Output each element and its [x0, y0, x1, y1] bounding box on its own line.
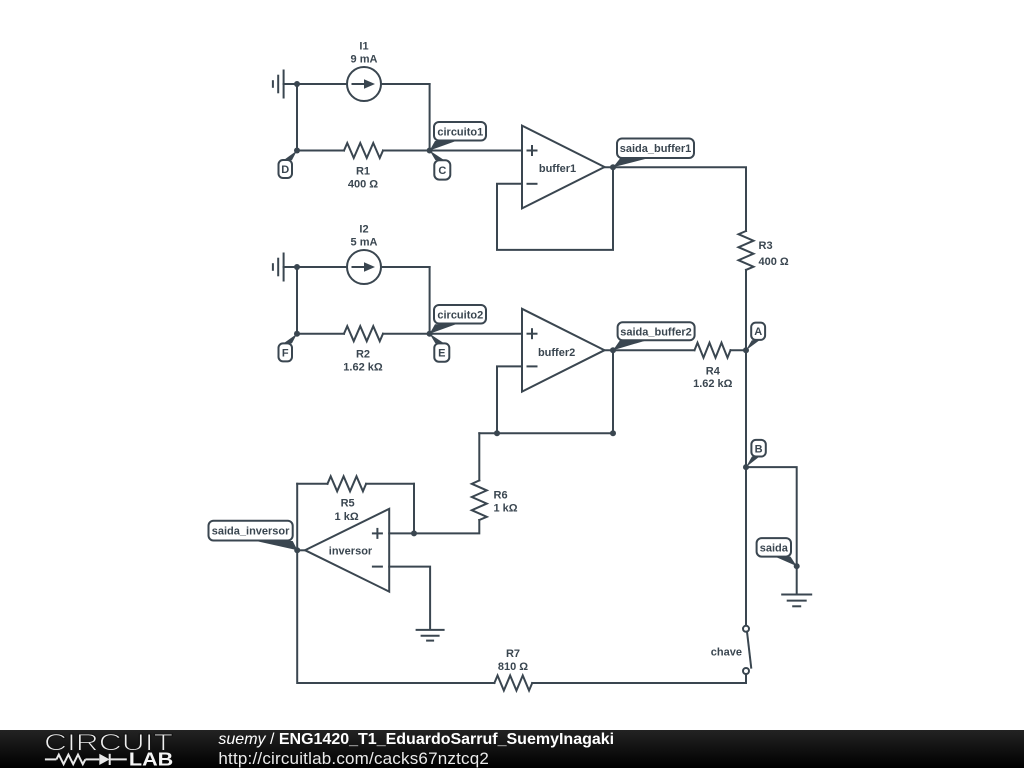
- junction R5/plus-wire: [411, 530, 417, 536]
- op-amp U3 inversor triangle (points left): [305, 509, 389, 592]
- node saida_inversor junction: [294, 547, 300, 553]
- wire ground2 to I2 left terminal: [284, 266, 347, 268]
- op-amp buffer2 plus pin mark: [527, 328, 538, 339]
- wire inversor - input to ground3: [389, 567, 430, 629]
- svg-text:inversor: inversor: [329, 545, 373, 557]
- junction ground2/I2/F: [294, 264, 300, 270]
- flag circuito1: [430, 122, 486, 151]
- resistor R2 leads and zigzag: [297, 333, 344, 335]
- wire buffer2 feedback loop: [497, 350, 613, 433]
- node tag E: [430, 334, 450, 362]
- svg-text:R2: R2: [356, 349, 370, 361]
- svg-text:D: D: [281, 164, 289, 176]
- svg-text:circuito1: circuito1: [437, 127, 483, 139]
- svg-text:400 Ω: 400 Ω: [759, 256, 789, 268]
- node B junction: [743, 464, 749, 470]
- svg-text:C: C: [438, 165, 446, 177]
- svg-text:buffer1: buffer1: [539, 163, 576, 175]
- wire ground1 to I1 left terminal: [284, 83, 347, 85]
- node tag F: [279, 334, 298, 362]
- svg-text:1.62 kΩ: 1.62 kΩ: [343, 362, 383, 374]
- node F junction: [294, 331, 300, 337]
- wire node B down to switch: [745, 467, 747, 626]
- svg-text:9 mA: 9 mA: [351, 54, 378, 66]
- wire ground junction down to node D: [296, 84, 298, 151]
- current source I2: [347, 250, 381, 284]
- svg-text:5 mA: 5 mA: [351, 237, 378, 249]
- wire node C to buffer1 + input: [430, 150, 522, 152]
- junction feedback2/R6: [494, 430, 500, 436]
- wire I1 right terminal to corner: [381, 83, 430, 85]
- flag saida_buffer2: [613, 322, 695, 350]
- svg-text:LAB: LAB: [129, 750, 173, 768]
- resistor R1 leads and zigzag: [297, 150, 344, 152]
- svg-text:circuito2: circuito2: [437, 310, 483, 322]
- component value labels: [329, 41, 742, 673]
- flag circuito2: [430, 305, 486, 334]
- wire buffer1 output to R3 top corner: [605, 167, 747, 231]
- svg-text:E: E: [438, 348, 445, 360]
- svg-text:1 kΩ: 1 kΩ: [494, 503, 518, 515]
- svg-text:buffer2: buffer2: [538, 347, 575, 359]
- net flags and node name tags: [209, 122, 797, 566]
- wire switch bottom to corner then left to R7: [532, 674, 746, 683]
- node D junction: [294, 148, 300, 154]
- ground GND2 (circuit 2, rotated left): [273, 254, 284, 281]
- resistor R6 zigzag: [472, 480, 487, 520]
- wire R4 to node A: [731, 349, 747, 351]
- wire corner down to node C: [429, 84, 431, 151]
- svg-text:saida_inversor: saida_inversor: [212, 526, 290, 538]
- ground GND1 (circuit 1, rotated left): [273, 71, 284, 98]
- wire inversor output stub: [297, 549, 305, 551]
- wire buffer1 feedback loop: [497, 167, 613, 250]
- node E junction: [427, 331, 433, 337]
- junction ground1/I1/D: [294, 81, 300, 87]
- current source I1: [347, 67, 381, 101]
- svg-text:saida_buffer2: saida_buffer2: [620, 326, 692, 338]
- junction feedback2 corner: [610, 430, 616, 436]
- node tag A: [746, 323, 765, 351]
- svg-text:R1: R1: [356, 166, 370, 178]
- op-amp U1 buffer1 triangle: [522, 126, 605, 209]
- op-amp inversor plus pin mark: [372, 528, 383, 539]
- switch SW1 chave: [743, 626, 751, 674]
- op-amp buffer2 minus pin mark: [527, 365, 538, 367]
- wire inversor + input to R6 bottom: [389, 520, 479, 533]
- svg-text:1 kΩ: 1 kΩ: [335, 511, 359, 523]
- resistor R7 zigzag: [494, 676, 532, 691]
- wire R7 to bottom-left corner then up to inversor output node: [297, 550, 494, 683]
- CircuitLab logo resistor-diode glyph: [45, 754, 127, 765]
- wire R6 top to feedback line: [478, 433, 480, 480]
- node tag D: [279, 151, 298, 179]
- resistor R4 zigzag: [695, 343, 731, 358]
- wire R6 corner to feedback junction: [479, 432, 497, 434]
- node saida_buffer2 junction: [610, 347, 616, 353]
- svg-text:R4: R4: [706, 365, 721, 377]
- node tag C: [430, 151, 451, 180]
- ground GND4 (below saida): [782, 595, 811, 607]
- svg-text:saida_buffer1: saida_buffer1: [620, 143, 692, 155]
- svg-text:A: A: [754, 326, 762, 338]
- wire corner down to node E: [429, 267, 431, 334]
- wire node A down to node B: [745, 350, 747, 467]
- svg-text:1.62 kΩ: 1.62 kΩ: [693, 378, 733, 390]
- wire buffer2 output to R4: [605, 349, 695, 351]
- wire I2 right terminal to corner: [381, 266, 430, 268]
- svg-text:saida: saida: [760, 543, 789, 555]
- flag saida: [757, 538, 797, 566]
- flag saida_buffer1: [613, 139, 694, 168]
- wire ground2 junction down to node F: [296, 267, 298, 334]
- node saida_buffer1 junction: [610, 164, 616, 170]
- op-amp buffer1 minus pin mark: [527, 183, 538, 185]
- resistor R3 zigzag: [739, 231, 754, 270]
- wire R5 right side down to + input wire: [413, 484, 415, 534]
- svg-text:810 Ω: 810 Ω: [498, 661, 528, 673]
- svg-text:R6: R6: [494, 489, 508, 501]
- svg-text:F: F: [282, 347, 289, 359]
- svg-text:http://circuitlab.com/cacks67n: http://circuitlab.com/cacks67nztcq2: [218, 749, 489, 768]
- footer bar: [0, 730, 1024, 768]
- ground GND3 (below inversor): [417, 630, 444, 641]
- op-amp inversor minus pin mark: [372, 566, 383, 568]
- svg-text:R5: R5: [341, 498, 355, 510]
- svg-text:B: B: [755, 443, 763, 455]
- node A junction: [743, 347, 749, 353]
- svg-text:I1: I1: [359, 41, 368, 53]
- op-amp U2 buffer2 triangle: [522, 309, 605, 392]
- svg-text:chave: chave: [711, 647, 742, 659]
- wire R3 bottom to node A: [745, 270, 747, 350]
- op-amp buffer1 plus pin mark: [527, 145, 538, 156]
- wire node E to buffer2 + input: [430, 333, 522, 335]
- svg-text:R3: R3: [759, 240, 773, 252]
- wire saida node down to ground4: [796, 566, 798, 593]
- node C junction: [427, 148, 433, 154]
- svg-text:400 Ω: 400 Ω: [348, 179, 378, 191]
- svg-text:suemy / ENG1420_T1_EduardoSarr: suemy / ENG1420_T1_EduardoSarruf_SuemyIn…: [218, 731, 614, 748]
- svg-text:R7: R7: [506, 648, 520, 660]
- wire node B right then down to saida node: [746, 467, 797, 566]
- resistor R5 leads and zigzag: [297, 483, 327, 485]
- wire inversor output node up to R5 row: [296, 484, 298, 551]
- flag saida_inversor: [209, 521, 298, 551]
- node saida junction: [794, 563, 800, 569]
- node tag B: [746, 440, 766, 467]
- svg-text:I2: I2: [359, 224, 368, 236]
